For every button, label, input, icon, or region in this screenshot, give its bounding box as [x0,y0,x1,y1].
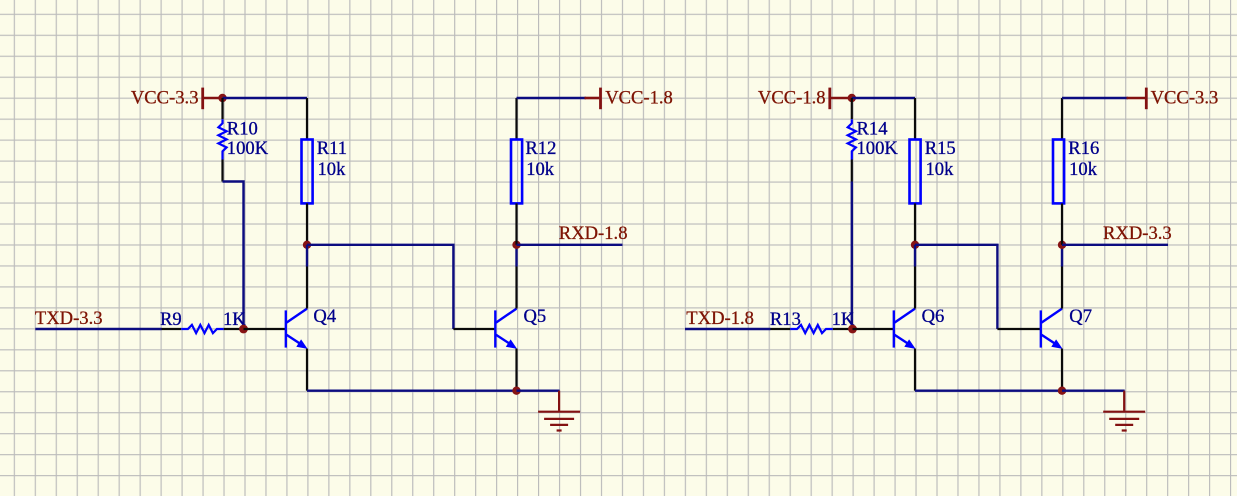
wire bottom left (Q4 emitter to Q5 emitter) [307,390,517,392]
wire Q5 collector stub [515,245,517,267]
svg-text:Q7: Q7 [1069,306,1092,327]
resistor R9 1K [160,309,246,333]
node VCC-3.3 junction [218,94,226,102]
net label RXD-3.3 [1062,223,1172,245]
net label TXD-1.8 [685,308,771,329]
wire to ground (left) [517,390,560,392]
resistor R13 1K [770,309,855,333]
svg-text:R11: R11 [317,138,347,159]
wire interstage (Q4 collector to Q5 base) [307,245,453,329]
transistor Q4 [244,267,337,391]
transistor Q6 [853,267,945,391]
power port VCC-3.3 (right) [1127,88,1219,110]
resistor R12 10k [511,98,556,245]
svg-text:Q6: Q6 [922,306,945,327]
svg-text:RXD-3.3: RXD-3.3 [1103,223,1172,244]
svg-text:Q4: Q4 [313,306,336,327]
svg-text:R16: R16 [1068,138,1099,159]
svg-text:VCC-3.3: VCC-3.3 [131,88,199,109]
net label TXD-3.3 [35,308,162,329]
svg-text:10k: 10k [926,159,955,180]
wire Q7 collector stub [1061,245,1063,267]
power port VCC-3.3 (left) [131,88,221,110]
node emitter bottom junction [512,387,520,395]
wire interstage right (Q6 collector to Q7 base) [915,245,997,329]
ground (left) [538,391,580,431]
power port VCC-1.8 (right circuit) [758,88,848,110]
transistor Q7 [997,267,1092,391]
transistor Q5 [453,267,546,391]
svg-text:10k: 10k [526,159,555,180]
wire to ground (right) [1062,390,1125,392]
node emitter bottom junction right [1058,387,1066,395]
svg-text:10k: 10k [1069,159,1098,180]
svg-text:VCC-1.8: VCC-1.8 [758,88,826,109]
resistor R16 10k [1053,98,1099,245]
wire top left (VCC-3.3 to R11) [223,97,308,99]
node R9/R10/Q4 base junction [239,325,248,334]
svg-text:Q5: Q5 [524,306,547,327]
svg-text:R15: R15 [925,138,956,159]
svg-text:R13: R13 [770,309,801,330]
wire Q4 collector stub [306,245,308,267]
node VCC-1.8 junction [848,94,856,102]
svg-text:R12: R12 [525,138,556,159]
power port VCC-1.8 (left circuit) [585,88,673,110]
node R11/Q4 collector junction [303,241,311,249]
resistor R11 10k [302,98,348,245]
node Q5 collector / R12 junction [512,241,520,249]
resistor R14 100K [848,98,899,182]
net label RXD-1.8 [517,223,628,245]
ground (right) [1103,391,1145,431]
node R13/R14/Q6 base junction [848,325,857,334]
svg-text:RXD-1.8: RXD-1.8 [559,223,628,244]
wire R12 top to VCC-1.8 [517,97,587,99]
resistor R15 10k [910,98,956,245]
node Q7 collector / R16 junction [1058,241,1066,249]
wire R14 bottom to junction [851,182,853,330]
svg-text:100K: 100K [227,138,269,159]
svg-text:VCC-3.3: VCC-3.3 [1151,88,1219,109]
node R15/Q6 collector junction [911,241,919,249]
wire Q6 collector stub [914,245,916,267]
svg-text:TXD-1.8: TXD-1.8 [686,308,754,329]
svg-text:TXD-3.3: TXD-3.3 [35,308,103,329]
svg-text:10k: 10k [318,159,347,180]
svg-text:VCC-1.8: VCC-1.8 [605,88,673,109]
svg-text:R10: R10 [227,119,258,140]
wire R16 top to VCC-3.3 [1062,97,1128,99]
svg-text:100K: 100K [857,138,899,159]
svg-text:R14: R14 [857,119,888,140]
wire R10 bottom jog [223,182,244,330]
wire bottom right (Q6 emitter to Q7 emitter) [915,390,1062,392]
wire top right (VCC-1.8 to R15) [852,97,915,99]
resistor R10 100K [218,98,268,182]
svg-text:R9: R9 [160,309,182,330]
